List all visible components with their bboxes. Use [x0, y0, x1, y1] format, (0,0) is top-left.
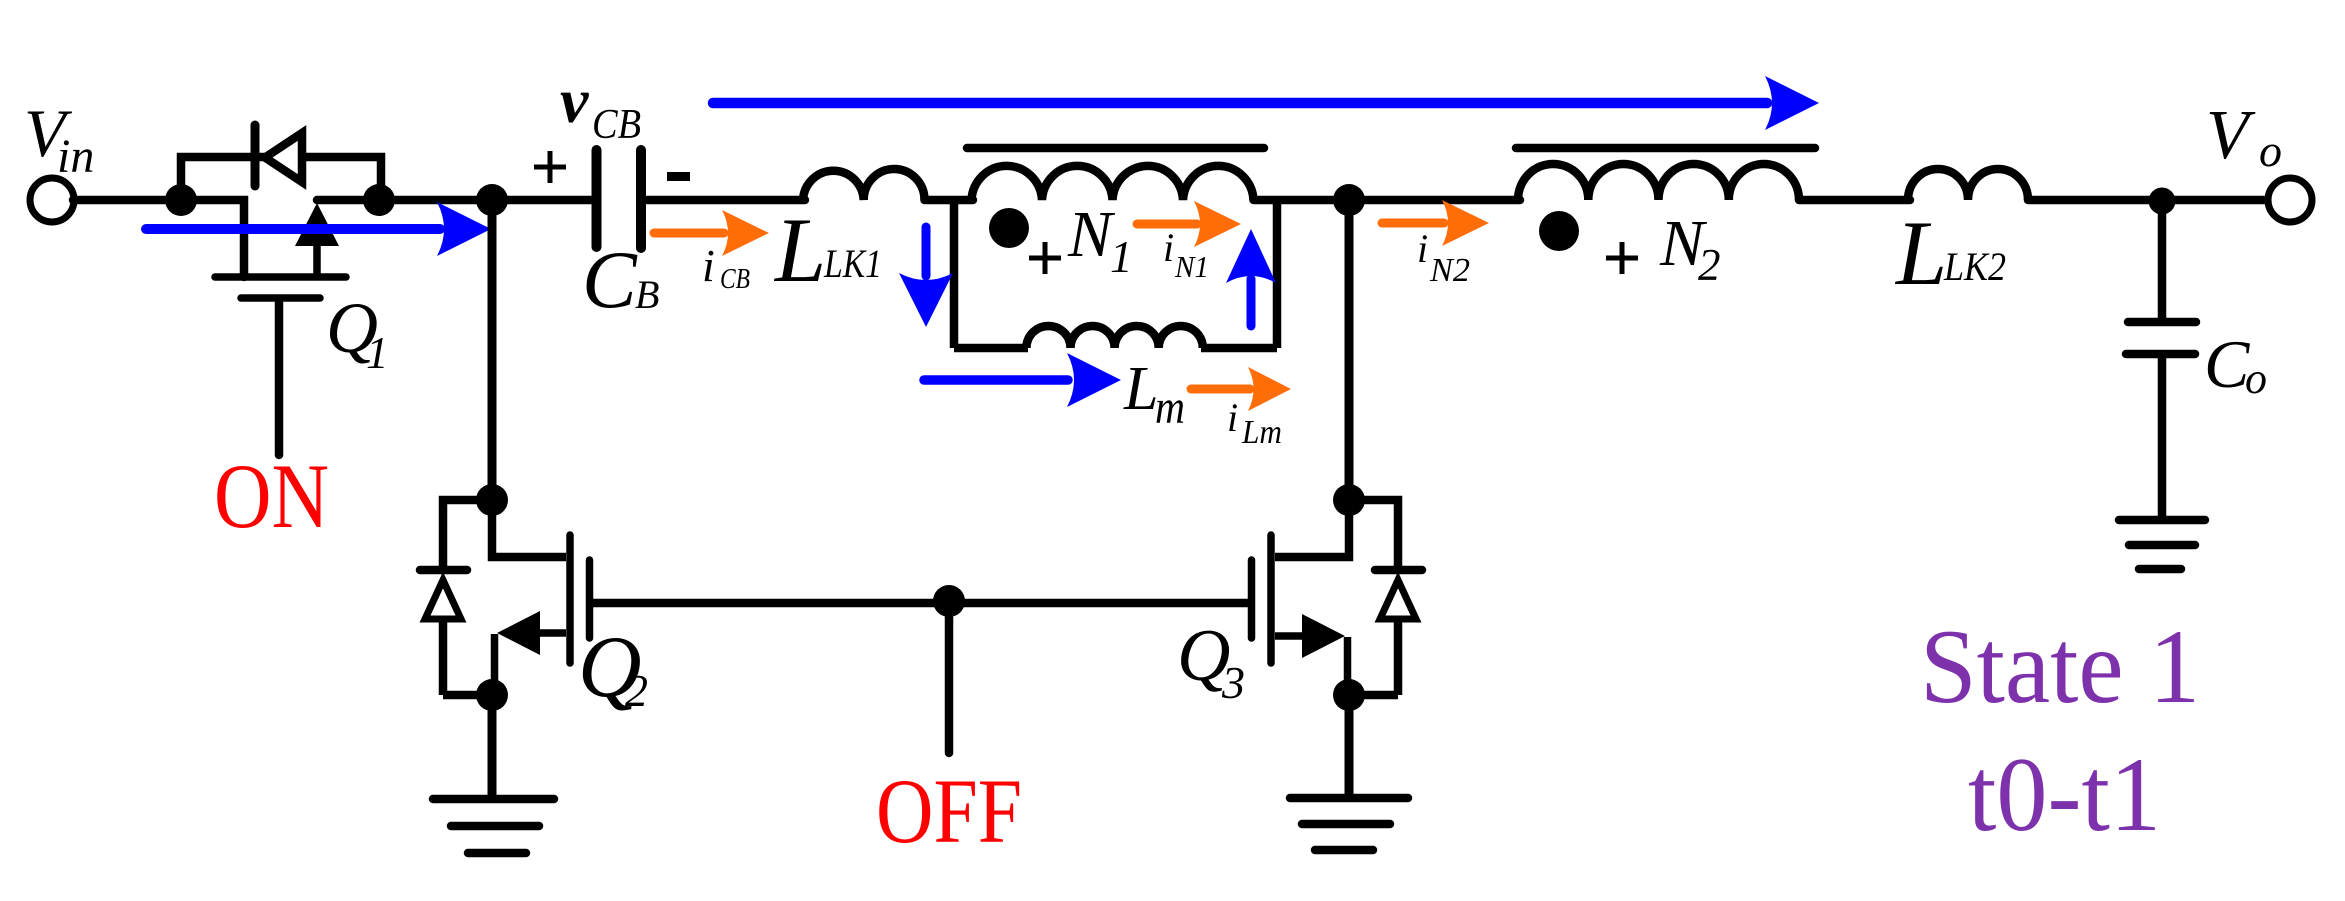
minus sign CB — [667, 172, 690, 181]
node D — [1333, 184, 1365, 216]
label Vo — [2206, 97, 2282, 176]
winding N2 — [1518, 164, 1799, 200]
wire N1 to N2 — [1254, 196, 1521, 205]
capacitor Co top lead — [2158, 204, 2167, 322]
orange arrow iN1 head — [1194, 201, 1241, 247]
gate wire Q2 to Q3 — [593, 599, 1248, 608]
label Vin — [24, 95, 94, 183]
node Q3 drain — [1333, 484, 1365, 516]
transistor Q1 gate bar — [241, 294, 320, 302]
node Q2 source — [476, 679, 508, 711]
diode D3 triangle — [1380, 580, 1416, 619]
blue top long arrow shaft — [713, 98, 1767, 109]
wire input rail — [73, 200, 244, 277]
transistor Q1 source arrow — [295, 203, 339, 246]
orange arrow iLm head — [1248, 367, 1291, 411]
transistor Q3 channel bar — [1267, 535, 1275, 663]
wire node D down to Q3 — [1345, 204, 1354, 497]
transistor Q1 gate lead — [275, 301, 284, 455]
capacitor CB left plate — [592, 150, 602, 247]
svg-text:CB: CB — [720, 264, 750, 295]
diode D1 cathode bar — [251, 125, 260, 186]
plus sign N1 — [1029, 242, 1061, 274]
node A — [165, 184, 197, 216]
inductor LLK2 — [1908, 169, 2028, 200]
transistor Q1 source lead — [313, 244, 321, 277]
svg-text:i: i — [702, 240, 715, 291]
svg-text:o: o — [2245, 354, 2267, 403]
inductor LLK1 — [803, 169, 925, 200]
diode D3 cathode bar — [1375, 566, 1422, 575]
svg-text:OFF: OFF — [876, 760, 1022, 862]
svg-text:N1: N1 — [1174, 249, 1209, 284]
wire CB to LLK1 — [645, 196, 805, 205]
svg-text:State 1: State 1 — [1920, 608, 2200, 725]
blue right arrow Lm head — [1067, 353, 1121, 407]
blue top long arrow head — [1765, 76, 1819, 130]
diode D1 wire — [181, 157, 381, 204]
svg-text:LK1: LK1 — [823, 241, 882, 286]
svg-text:i: i — [1163, 225, 1174, 270]
node Q2 drain — [476, 484, 508, 516]
diode D2 cathode bar — [420, 566, 467, 575]
transistor Q3 gate bar — [1248, 560, 1256, 638]
svg-text:i: i — [1417, 226, 1428, 271]
svg-text:Lm: Lm — [1241, 414, 1282, 451]
transistor Q3 source arrow — [1302, 614, 1345, 658]
svg-text:LK2: LK2 — [1943, 244, 2006, 289]
wire N2 to LLK2 — [1799, 196, 1910, 205]
svg-text:V: V — [2206, 97, 2256, 174]
svg-text:in: in — [57, 130, 94, 183]
capacitor Co bottom lead — [2158, 354, 2167, 518]
svg-text:B: B — [635, 272, 659, 317]
orange arrow iN1 shaft — [1137, 220, 1197, 229]
orange arrow iN2 shaft — [1382, 219, 1444, 228]
svg-text:t0-t1: t0-t1 — [1968, 736, 2161, 853]
plus sign CB — [534, 151, 566, 183]
transistor Q1 channel bar — [215, 273, 346, 281]
transistor Q2 gate bar — [586, 560, 594, 638]
blue up arrow head — [1226, 229, 1276, 283]
plus sign N2 — [1606, 242, 1638, 274]
node OFF — [933, 585, 965, 617]
svg-text:N2: N2 — [1429, 252, 1470, 289]
ground under Q3 — [1290, 798, 1408, 850]
orange arrow iCB shaft — [654, 229, 724, 238]
svg-text:C: C — [582, 234, 638, 325]
transistor Q2 source lead — [491, 634, 499, 695]
label iN1 — [1163, 225, 1209, 284]
label N1 — [1067, 198, 1133, 282]
transistor Q2 source line — [538, 629, 566, 637]
svg-text:v: v — [560, 65, 589, 136]
label Q3 — [1177, 615, 1245, 708]
label CB — [582, 234, 659, 325]
diode D1 triangle — [265, 133, 302, 182]
transistor Q2 channel bar — [566, 535, 574, 663]
svg-text:L: L — [1894, 202, 1947, 304]
label iN2 — [1417, 226, 1470, 289]
capacitor Co top plate — [2128, 318, 2196, 327]
transistor Q3 source lead — [1344, 637, 1352, 695]
transformer core bar above N2 — [1516, 144, 1815, 153]
label LLK2 — [1894, 202, 2006, 304]
capacitor Co bottom plate — [2126, 350, 2195, 359]
orange arrow iLm shaft — [1191, 385, 1250, 394]
label iLm — [1227, 395, 1282, 451]
transistor Q2 source arrow — [497, 611, 540, 655]
svg-text:o: o — [2259, 125, 2282, 176]
label iCB — [702, 240, 750, 295]
winding N1 — [972, 166, 1254, 200]
wire LLK2 to Vo — [2028, 196, 2270, 205]
blue down arrow shaft — [922, 227, 931, 276]
wire source to CB — [317, 196, 592, 205]
blue up arrow shaft — [1247, 279, 1256, 326]
label N2 — [1659, 207, 1721, 290]
wire LLK1 to N1 — [925, 196, 974, 205]
label Co — [2204, 326, 2267, 403]
svg-text:2: 2 — [1698, 240, 1721, 290]
svg-text:i: i — [1227, 395, 1238, 440]
polarity dot N1 — [989, 208, 1029, 248]
label Q2 — [578, 619, 648, 716]
orange arrow iCB head — [722, 210, 769, 256]
blue current arrow input shaft — [146, 224, 440, 234]
label Lm — [1123, 355, 1185, 434]
diode D3 top lead — [1349, 500, 1398, 566]
magnetizing branch Lm loop — [954, 204, 1277, 348]
svg-text:1: 1 — [1110, 232, 1133, 282]
node B — [363, 184, 395, 216]
node C — [476, 184, 508, 216]
svg-text:1: 1 — [366, 328, 389, 378]
orange arrow iN2 head — [1442, 200, 1489, 246]
label vCB — [560, 65, 641, 148]
svg-text:2: 2 — [625, 665, 648, 716]
OFF gate stub — [945, 603, 954, 753]
terminal Vo — [2268, 178, 2312, 222]
terminal Vin — [30, 178, 74, 222]
svg-text:m: m — [1155, 381, 1185, 434]
svg-text:L: L — [1123, 355, 1158, 423]
diode D3 bottom lead — [1349, 622, 1398, 695]
transistor Q3 source line — [1275, 632, 1304, 640]
svg-text:3: 3 — [1221, 657, 1245, 708]
node Q3 source — [1333, 679, 1365, 711]
transformer core bar above N1 — [967, 144, 1264, 153]
blue down arrow head — [899, 273, 953, 327]
blue current arrow input head — [437, 202, 491, 256]
transistor Q2 drain lead — [492, 504, 566, 557]
wire Q3 to ground — [1345, 695, 1354, 798]
svg-text:CB: CB — [592, 102, 641, 148]
blue right arrow Lm shaft — [924, 375, 1068, 385]
svg-text:C: C — [2204, 326, 2250, 402]
wire node C down to Q2 — [488, 204, 497, 497]
winding Lm — [1026, 326, 1202, 348]
wire Q2 to ground — [488, 695, 497, 799]
ground under Q2 — [433, 799, 554, 853]
label Q1 — [326, 288, 389, 378]
svg-text:L: L — [773, 199, 826, 301]
svg-text:N: N — [1067, 198, 1116, 271]
transistor Q3 drain lead — [1275, 504, 1349, 557]
ground under Co — [2119, 520, 2205, 569]
diode D2 triangle — [425, 580, 461, 619]
diode D2 bottom lead — [443, 622, 492, 695]
node E — [2149, 188, 2176, 215]
label LLK1 — [773, 199, 882, 301]
polarity dot N2 — [1539, 211, 1579, 251]
diode D2 top lead — [443, 500, 492, 566]
svg-text:ON: ON — [214, 445, 329, 547]
capacitor CB right plate — [636, 150, 646, 248]
